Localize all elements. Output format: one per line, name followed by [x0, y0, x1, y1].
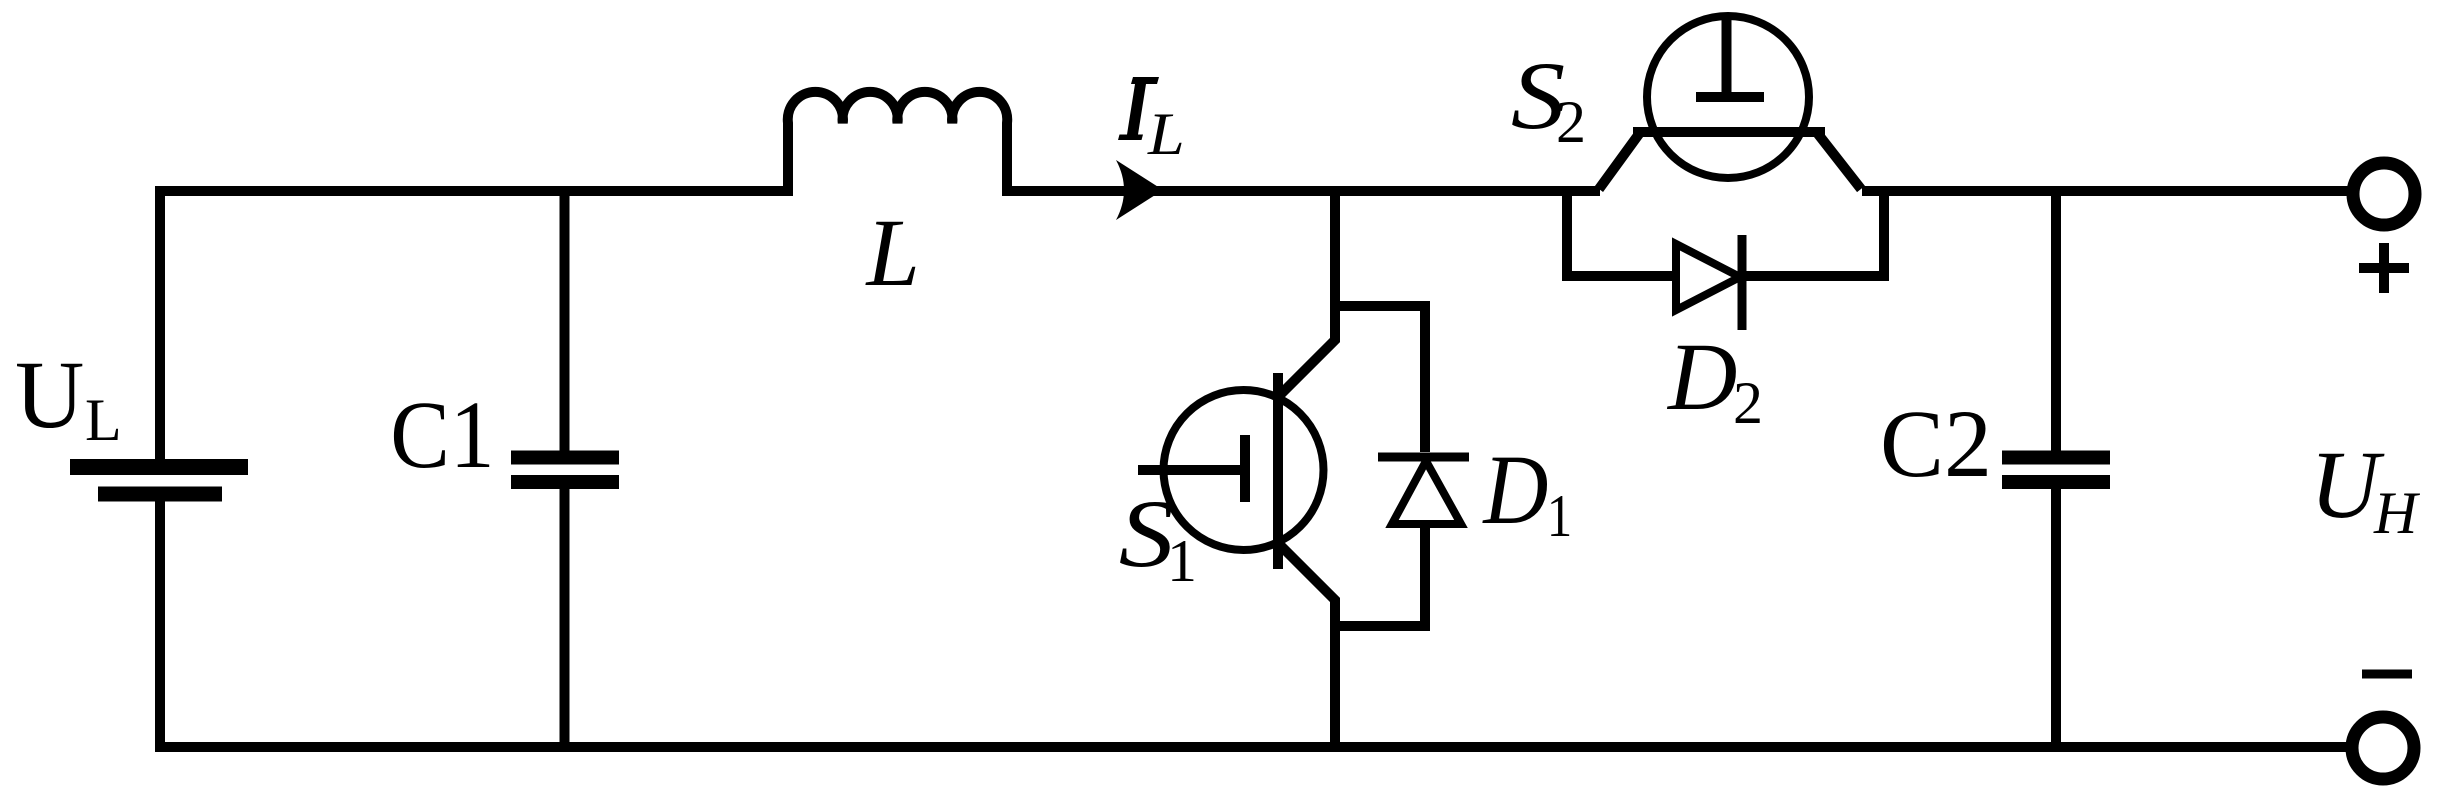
svg-text:1: 1 — [1167, 528, 1197, 594]
svg-text:H: H — [2373, 480, 2421, 546]
svg-text:L: L — [865, 199, 920, 306]
svg-text:1: 1 — [1547, 483, 1573, 550]
svg-text:C1: C1 — [390, 382, 494, 489]
svg-text:D: D — [1482, 434, 1549, 545]
svg-text:U: U — [15, 341, 84, 448]
svg-text:S: S — [1119, 482, 1174, 587]
svg-text:L: L — [1147, 101, 1185, 168]
svg-text:L: L — [85, 387, 122, 453]
svg-text:C2: C2 — [1880, 390, 1992, 497]
svg-text:2: 2 — [1733, 370, 1763, 436]
svg-text:D: D — [1666, 323, 1737, 430]
svg-text:2: 2 — [1556, 89, 1586, 155]
